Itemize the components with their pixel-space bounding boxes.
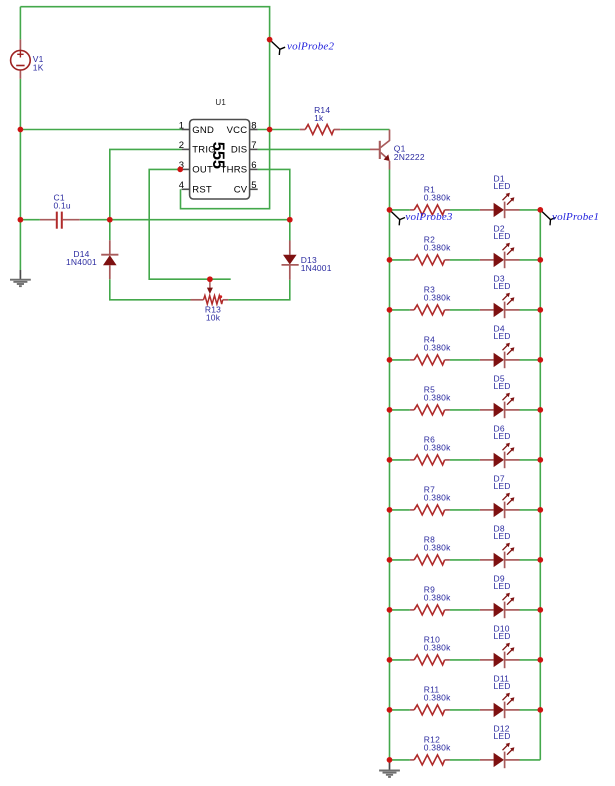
wire: VCC pin8 to R14 [258,129,300,131]
svg-text:0.380k: 0.380k [424,693,451,703]
svg-text:10k: 10k [206,313,221,323]
LED D9 [480,573,520,618]
wire: D14 column top [109,220,111,241]
svg-text:2: 2 [179,140,184,151]
junction left bus row 2 [387,257,393,263]
LED D6 [480,423,520,468]
wire: LED row 10 segments [390,659,410,661]
wire: C1 row left [20,219,40,221]
wire: LED row 12 segments [390,759,410,761]
junction node V1-GND [18,127,24,133]
svg-text:LED: LED [494,181,511,191]
wire: LED row 6 segments [390,459,410,461]
wire: THRS pin6 down to D13 node [258,169,290,219]
resistor R11 0.380k [410,685,451,715]
svg-text:1: 1 [179,120,184,131]
junction node OUT pin [177,167,183,173]
svg-text:LED: LED [494,481,511,491]
wire: LED row 9 segments [390,609,410,611]
wire: RST pin4 routing to VCC node [181,130,270,209]
wire: bottom rail right of R13 to D13 bottom [228,280,289,300]
svg-text:LED: LED [494,581,511,591]
svg-text:0.380k: 0.380k [424,343,451,353]
LED D3 [480,273,520,318]
svg-text:LED: LED [494,731,511,741]
svg-text:LED: LED [494,531,511,541]
junction right bus row 4 [537,357,543,363]
junction node THRS-C1-D13 [287,217,293,223]
resistor R8 0.380k [410,535,451,565]
wire: LED row 4 segments [390,359,410,361]
ground (left, V1/C1 net) [10,270,31,286]
svg-text:LED: LED [494,431,511,441]
svg-text:1K: 1K [33,63,44,73]
junction left bus row 12 [387,757,393,763]
svg-text:0.380k: 0.380k [424,243,451,253]
junction left bus row 9 [387,607,393,613]
junction right bus row 8 [537,557,543,563]
resistor R2 0.380k [410,235,451,265]
transistor Q1 2N2222 [370,130,425,170]
svg-text:LED: LED [494,231,511,241]
LED D12 [480,723,520,768]
svg-text:1N4001: 1N4001 [66,257,97,267]
wire: LED row 8 segments [390,559,410,561]
LED D5 [480,373,520,418]
wire: TRIG pin2 down to C1 node [110,149,182,219]
svg-text:0.380k: 0.380k [424,643,451,653]
svg-text:VCC: VCC [227,125,248,136]
svg-text:0.380k: 0.380k [424,543,451,553]
wire: top rail V1 to volProbe2 column [20,7,269,130]
LED D11 [480,673,520,718]
resistor R7 0.380k [410,485,451,515]
svg-text:0.380k: 0.380k [424,393,451,403]
junction left bus row 1 [387,207,393,213]
resistor R6 0.380k [410,435,451,465]
resistor R5 0.380k [410,385,451,415]
resistor R1 0.380k [410,185,451,215]
svg-text:0.380k: 0.380k [424,193,451,203]
wire: LED row 1 segments [390,209,410,211]
wire: R14 right to Q1 collector [340,129,389,131]
diode D13 1N4001 [282,241,332,280]
wire: LED row 11 segments [390,709,410,711]
wire: D14 column bottom to bottom rail [110,279,191,300]
junction right bus row 11 [537,707,543,713]
junction left bus row 10 [387,657,393,663]
junction left bus row 4 [387,357,393,363]
svg-text:LED: LED [494,381,511,391]
junction node TRIG-C1-D14 [107,217,113,223]
wire: LED row 5 segments [390,409,410,411]
junction right bus row 3 [537,307,543,313]
svg-text:CV: CV [234,185,248,196]
svg-text:volProbe1: volProbe1 [552,211,599,223]
LED D4 [480,323,520,368]
LED D1 [480,173,520,218]
svg-text:0.380k: 0.380k [424,593,451,603]
junction right bus row 10 [537,657,543,663]
svg-text:1k: 1k [314,113,324,123]
svg-text:0.380k: 0.380k [424,743,451,753]
LED D7 [480,473,520,518]
wire: LED row 3 segments [390,309,410,311]
junction left bus row 7 [387,507,393,513]
resistor R12 0.380k [410,735,451,765]
junction left bus row 6 [387,457,393,463]
wire: D13 column top lead join [289,220,291,241]
resistor R3 0.380k [410,285,451,315]
probe volProbe3 [390,210,453,225]
capacitor C1 [40,192,80,228]
svg-text:6: 6 [251,160,256,171]
junction right bus row 1 [537,207,543,213]
voltage source V1 [11,39,44,79]
junction left bus row 11 [387,707,393,713]
svg-text:8: 8 [251,120,256,131]
junction right bus row 7 [537,507,543,513]
svg-text:LED: LED [494,281,511,291]
wire: LED row 7 segments [390,509,410,511]
junction node V1-C1 [18,217,24,223]
wire: OUT pin3 to R13 wiper row [149,169,231,279]
svg-text:RST: RST [192,185,212,196]
ground (LED bus bottom) [379,761,400,777]
wire: V1 column lower to ground [19,79,21,270]
junction left bus row 5 [387,407,393,413]
svg-text:555: 555 [209,142,227,169]
svg-text:LED: LED [494,331,511,341]
junction left bus row 3 [387,307,393,313]
wire: left LED bus vertical [389,210,391,760]
IC U1 555 timer [179,98,258,199]
diode D14 1N4001 [66,240,118,279]
svg-text:U1: U1 [215,98,226,107]
wire: Q1 emitter down to LED bus [389,170,391,210]
resistor R10 0.380k [410,635,451,665]
wire: GND pin1 to V1 column [20,129,181,131]
wire: C1 row right to D13 column [80,219,290,221]
svg-text:2N2222: 2N2222 [394,152,425,162]
svg-text:0.1u: 0.1u [54,200,71,210]
LED D2 [480,223,520,268]
junction node R13 wiper [207,276,213,282]
svg-text:LED: LED [494,631,511,641]
svg-text:volProbe3: volProbe3 [405,211,453,223]
svg-text:5: 5 [251,180,256,191]
junction right bus row 2 [537,257,543,263]
resistor R14 [300,105,340,135]
junction left bus row 8 [387,557,393,563]
wire: LED row 2 segments [390,259,410,261]
svg-text:1N4001: 1N4001 [301,263,332,273]
probe volProbe2 [270,40,334,55]
junction right bus row 9 [537,607,543,613]
svg-text:0.380k: 0.380k [424,443,451,453]
junction node VCC-RST [267,127,273,133]
junction node volProbe2 tap [267,37,273,43]
svg-text:volProbe2: volProbe2 [287,41,335,53]
LED D8 [480,523,520,568]
junction right bus row 6 [537,457,543,463]
wire: right LED bus vertical [539,210,541,760]
svg-text:DIS: DIS [231,145,247,156]
resistor R4 0.380k [410,335,451,365]
wire: V1 column upper [19,7,21,40]
svg-text:7: 7 [251,140,256,151]
probe volProbe1 [541,210,599,225]
wire: DIS pin7 to Q1 base [258,148,370,150]
svg-text:GND: GND [192,125,214,136]
resistor R9 0.380k [410,585,451,615]
svg-text:0.380k: 0.380k [424,493,451,503]
svg-text:LED: LED [494,681,511,691]
svg-text:4: 4 [179,180,184,191]
junction right bus row 5 [537,407,543,413]
LED D10 [480,623,520,668]
potentiometer R13 10k [191,282,229,323]
svg-text:0.380k: 0.380k [424,293,451,303]
